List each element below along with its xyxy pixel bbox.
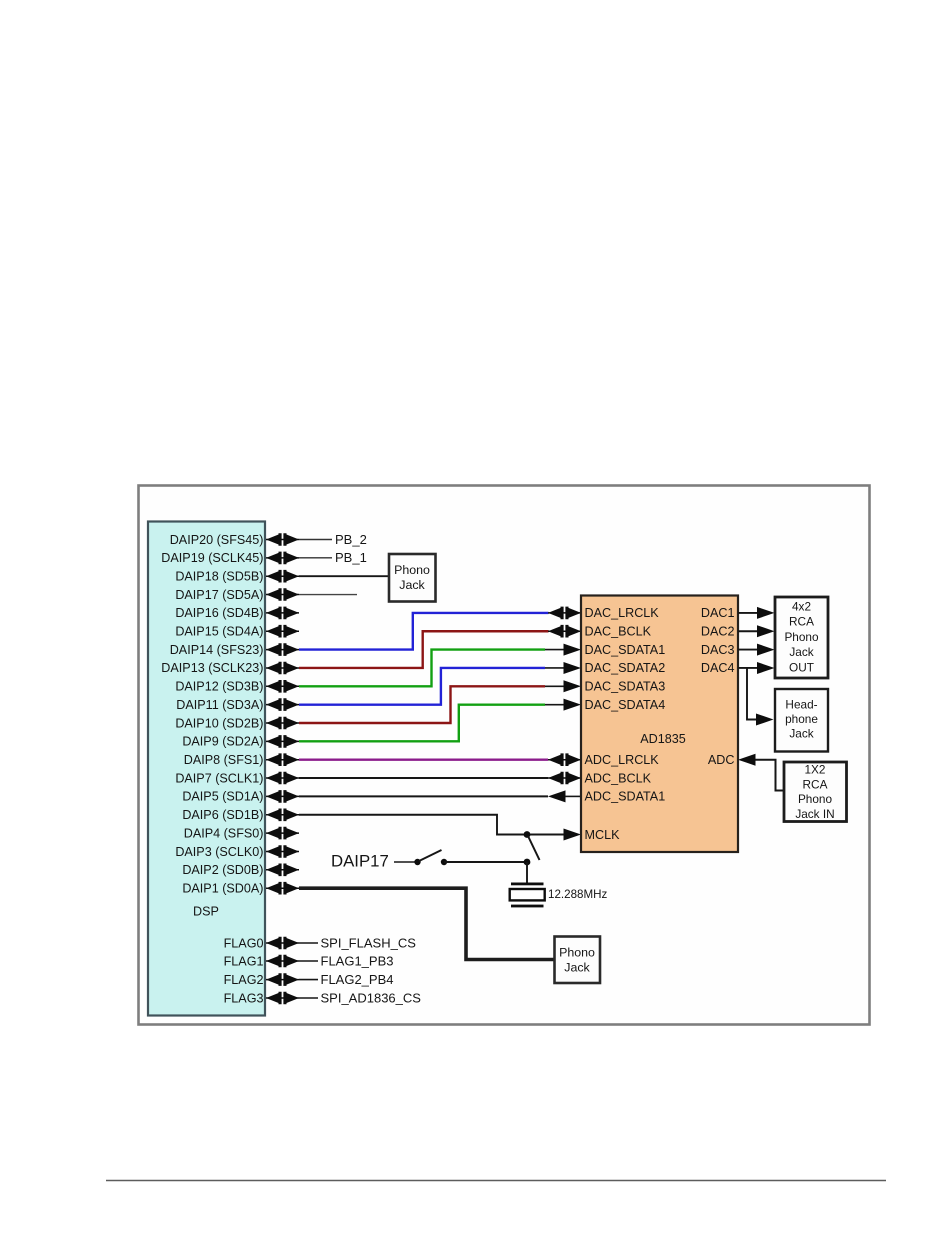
RCA phono in jack box bbox=[784, 762, 847, 822]
svg-text:DAIP16 (SD4B): DAIP16 (SD4B) bbox=[175, 606, 263, 620]
wire DAIP17 label to switch bbox=[394, 861, 415, 863]
bidirectional pin arrow DAIP20 (SFS45) bbox=[266, 533, 299, 546]
svg-text:DAC4: DAC4 bbox=[701, 661, 735, 675]
svg-text:ADC_LRCLK: ADC_LRCLK bbox=[585, 753, 660, 767]
bidirectional pin arrow FLAG0 bbox=[266, 937, 299, 950]
arrow into DAC_SDATA3 bbox=[564, 680, 582, 692]
svg-text:RCA: RCA bbox=[789, 615, 814, 629]
svg-text:DAIP10 (SD2B): DAIP10 (SD2B) bbox=[175, 716, 263, 730]
svg-text:PB_2: PB_2 bbox=[335, 532, 367, 547]
bidirectional arrow at ADC_LRCLK bbox=[548, 753, 581, 766]
svg-text:DAC_SDATA4: DAC_SDATA4 bbox=[585, 698, 666, 712]
svg-text:1X2: 1X2 bbox=[805, 763, 826, 777]
arrow toward DSP on ADC_SDATA1 bbox=[548, 790, 566, 802]
svg-text:MCLK: MCLK bbox=[585, 828, 621, 842]
bidirectional pin arrow DAIP2 (SD0B) bbox=[266, 864, 299, 877]
svg-text:ADC_SDATA1: ADC_SDATA1 bbox=[585, 790, 666, 804]
svg-text:DAIP17: DAIP17 bbox=[331, 852, 389, 871]
bidirectional pin arrow DAIP12 (SD3B) bbox=[266, 680, 299, 693]
wire DAIP1 to phono jack bbox=[299, 888, 554, 959]
svg-text:DAC_SDATA3: DAC_SDATA3 bbox=[585, 680, 666, 694]
svg-text:DAC1: DAC1 bbox=[701, 606, 735, 620]
arrow into DAC_SDATA2 bbox=[564, 662, 582, 674]
bidirectional pin arrow DAIP8 (SFS1) bbox=[266, 753, 299, 766]
svg-text:12.288MHz: 12.288MHz bbox=[548, 888, 607, 901]
switch contact node left bbox=[414, 859, 420, 865]
bidirectional pin arrow DAIP10 (SD2B) bbox=[266, 717, 299, 730]
wire DAIP5 to ADC_SDATA1 bbox=[299, 795, 548, 797]
svg-text:FLAG0: FLAG0 bbox=[224, 936, 264, 950]
bidirectional pin arrow FLAG1 bbox=[266, 955, 299, 968]
svg-text:DAC2: DAC2 bbox=[701, 625, 735, 639]
svg-text:DAIP12 (SD3B): DAIP12 (SD3B) bbox=[175, 680, 263, 694]
arrow DAC4 into RCA out jack bbox=[757, 662, 775, 674]
svg-text:DAC_SDATA1: DAC_SDATA1 bbox=[585, 643, 666, 657]
bidirectional pin arrow DAIP16 (SD4B) bbox=[266, 607, 299, 620]
wire DAC4 branch to headphone jack bbox=[747, 668, 756, 720]
svg-text:Jack: Jack bbox=[564, 961, 590, 975]
svg-text:DAIP3 (SCLK0): DAIP3 (SCLK0) bbox=[175, 845, 263, 859]
arrow into DAC_SDATA1 bbox=[564, 644, 582, 656]
wire stub into DAC_SDATA1 bbox=[545, 649, 564, 651]
svg-text:Jack: Jack bbox=[789, 645, 813, 659]
svg-text:DAIP2 (SD0B): DAIP2 (SD0B) bbox=[182, 863, 263, 877]
arrow into headphone jack bbox=[756, 714, 774, 726]
phono jack box bottom bbox=[555, 937, 601, 984]
bidirectional pin arrow DAIP17 (SD5A) bbox=[266, 588, 299, 601]
svg-text:DAIP17 (SD5A): DAIP17 (SD5A) bbox=[175, 588, 263, 602]
svg-text:DAC3: DAC3 bbox=[701, 643, 735, 657]
arrow into MCLK bbox=[564, 829, 582, 841]
bidirectional pin arrow DAIP15 (SD4A) bbox=[266, 625, 299, 638]
wire RCA in jack to ADC bbox=[756, 760, 784, 791]
bidirectional pin arrow FLAG2 bbox=[266, 973, 299, 986]
wire DAIP8 to ADC_LRCLK bbox=[299, 759, 548, 761]
bidirectional pin arrow DAIP1 (SD0A) bbox=[266, 882, 299, 895]
wire switch to crystal node bbox=[444, 861, 527, 863]
headphone jack box bbox=[775, 689, 828, 752]
svg-text:DAIP4 (SFS0): DAIP4 (SFS0) bbox=[184, 826, 264, 840]
svg-text:PB_1: PB_1 bbox=[335, 550, 367, 565]
arrow DAC2 into RCA out jack bbox=[757, 625, 775, 637]
wire DAIP17 stub bbox=[299, 594, 357, 596]
wire FLAG stub FLAG2_PB4 bbox=[299, 979, 318, 981]
svg-text:OUT: OUT bbox=[789, 660, 814, 674]
wire node to crystal bbox=[526, 862, 528, 883]
wire PB_1 bbox=[299, 557, 332, 559]
svg-text:DAIP19 (SCLK45): DAIP19 (SCLK45) bbox=[161, 551, 263, 565]
svg-text:4x2: 4x2 bbox=[792, 599, 811, 613]
wire FLAG stub FLAG1_PB3 bbox=[299, 960, 318, 962]
wire DAC1 to RCA out jack bbox=[738, 612, 757, 614]
figure border frame bbox=[139, 486, 870, 1025]
wire DAIP12 to DAC_SDATA1 bbox=[299, 650, 545, 687]
bidirectional arrow at DAC_BCLK bbox=[548, 625, 581, 638]
wire FLAG stub SPI_FLASH_CS bbox=[299, 942, 318, 944]
svg-text:DAIP20 (SFS45): DAIP20 (SFS45) bbox=[170, 533, 264, 547]
svg-text:Phono: Phono bbox=[559, 946, 595, 960]
svg-text:DAIP14 (SFS23): DAIP14 (SFS23) bbox=[170, 643, 264, 657]
bidirectional pin arrow DAIP14 (SFS23) bbox=[266, 643, 299, 656]
wire stub into DAC_SDATA4 bbox=[545, 704, 564, 706]
svg-text:FLAG2: FLAG2 bbox=[224, 973, 264, 987]
svg-text:DAIP18 (SD5B): DAIP18 (SD5B) bbox=[175, 570, 263, 584]
wire DAIP11 to DAC_SDATA2 bbox=[299, 668, 545, 705]
svg-text:FLAG3: FLAG3 bbox=[224, 991, 264, 1005]
svg-text:Phono: Phono bbox=[784, 630, 819, 644]
wire DAIP10 to DAC_SDATA3 bbox=[299, 686, 545, 723]
bidirectional pin arrow DAIP11 (SD3A) bbox=[266, 698, 299, 711]
svg-text:AD1835: AD1835 bbox=[640, 732, 686, 746]
bidirectional pin arrow DAIP19 (SCLK45) bbox=[266, 552, 299, 565]
crystal Y1 bottom plate bbox=[511, 905, 544, 908]
svg-text:DAIP9 (SD2A): DAIP9 (SD2A) bbox=[182, 735, 263, 749]
svg-text:DAIP8 (SFS1): DAIP8 (SFS1) bbox=[184, 753, 264, 767]
wire PB_2 bbox=[299, 539, 332, 541]
footer rule bbox=[106, 1180, 886, 1182]
AD1835 codec block bbox=[581, 596, 738, 853]
bidirectional pin arrow DAIP4 (SFS0) bbox=[266, 827, 299, 840]
switch blade from MCLK node bbox=[528, 836, 540, 860]
bidirectional pin arrow DAIP9 (SD2A) bbox=[266, 735, 299, 748]
wire DAIP13 to DAC_BCLK bbox=[299, 631, 549, 668]
svg-text:RCA: RCA bbox=[803, 777, 828, 791]
crystal Y1 body bbox=[510, 889, 545, 900]
wire DAC4 to RCA out jack bbox=[738, 667, 757, 669]
svg-text:phone: phone bbox=[785, 712, 818, 726]
svg-text:DAC_BCLK: DAC_BCLK bbox=[585, 625, 652, 639]
wire DAIP7 to ADC_BCLK bbox=[299, 777, 548, 779]
svg-text:DAC_LRCLK: DAC_LRCLK bbox=[585, 606, 660, 620]
wire DAIP18 to phono jack bbox=[299, 575, 389, 577]
wire stub into DAC_SDATA2 bbox=[545, 667, 564, 669]
switch contact node right bbox=[441, 859, 447, 865]
bidirectional arrow at ADC_BCLK bbox=[548, 772, 581, 785]
junction node above crystal bbox=[524, 859, 531, 866]
switch blade DAIP17 bbox=[419, 850, 442, 861]
phono jack box top bbox=[389, 554, 436, 602]
svg-text:DAIP11 (SD3A): DAIP11 (SD3A) bbox=[176, 698, 263, 712]
svg-text:SPI_AD1836_CS: SPI_AD1836_CS bbox=[321, 990, 422, 1005]
svg-text:FLAG1: FLAG1 bbox=[224, 954, 264, 968]
bidirectional pin arrow FLAG3 bbox=[266, 992, 299, 1005]
bidirectional pin arrow DAIP7 (SCLK1) bbox=[266, 772, 299, 785]
svg-text:ADC: ADC bbox=[708, 753, 735, 767]
svg-text:DAIP7 (SCLK1): DAIP7 (SCLK1) bbox=[175, 771, 263, 785]
bidirectional pin arrow DAIP3 (SCLK0) bbox=[266, 845, 299, 858]
wire DAC3 to RCA out jack bbox=[738, 649, 757, 651]
wire DAIP14 to DAC_LRCLK bbox=[299, 613, 549, 650]
junction node on MCLK net bbox=[524, 831, 531, 838]
svg-text:FLAG1_PB3: FLAG1_PB3 bbox=[321, 953, 394, 968]
wire stub into DAC_SDATA3 bbox=[545, 685, 564, 687]
bidirectional pin arrow DAIP6 (SD1B) bbox=[266, 809, 299, 822]
DSP block bbox=[148, 522, 265, 1016]
svg-text:DSP: DSP bbox=[193, 905, 219, 919]
RCA phono out jack box bbox=[775, 597, 828, 678]
svg-text:Phono: Phono bbox=[394, 563, 430, 577]
wire DAIP9 to DAC_SDATA4 bbox=[299, 705, 545, 742]
svg-text:ADC_BCLK: ADC_BCLK bbox=[585, 771, 652, 785]
svg-text:DAIP6 (SD1B): DAIP6 (SD1B) bbox=[182, 808, 263, 822]
svg-text:Head-: Head- bbox=[785, 698, 817, 712]
wire stub ADC_SDATA1 to AD1835 bbox=[565, 795, 581, 797]
arrow DAC3 into RCA out jack bbox=[757, 644, 775, 656]
svg-text:DAIP5 (SD1A): DAIP5 (SD1A) bbox=[182, 790, 263, 804]
svg-text:DAIP13 (SCLK23): DAIP13 (SCLK23) bbox=[161, 661, 263, 675]
svg-text:Phono: Phono bbox=[798, 792, 833, 806]
wire DAIP6 to MCLK bbox=[299, 815, 564, 835]
svg-text:DAIP1 (SD0A): DAIP1 (SD0A) bbox=[182, 882, 263, 896]
wire FLAG stub SPI_AD1836_CS bbox=[299, 997, 318, 999]
arrow into DAC_SDATA4 bbox=[564, 699, 582, 711]
arrow into ADC pin bbox=[738, 754, 756, 766]
svg-text:FLAG2_PB4: FLAG2_PB4 bbox=[321, 972, 394, 987]
wire DAC2 to RCA out jack bbox=[738, 630, 757, 632]
bidirectional arrow at DAC_LRCLK bbox=[548, 607, 581, 620]
svg-text:DAC_SDATA2: DAC_SDATA2 bbox=[585, 661, 666, 675]
bidirectional pin arrow DAIP18 (SD5B) bbox=[266, 570, 299, 583]
crystal Y1 top plate bbox=[511, 883, 544, 886]
bidirectional pin arrow DAIP5 (SD1A) bbox=[266, 790, 299, 803]
svg-text:SPI_FLASH_CS: SPI_FLASH_CS bbox=[321, 935, 417, 950]
svg-text:Jack: Jack bbox=[399, 578, 425, 592]
svg-text:DAIP15 (SD4A): DAIP15 (SD4A) bbox=[175, 625, 263, 639]
bidirectional pin arrow DAIP13 (SCLK23) bbox=[266, 662, 299, 675]
svg-text:Jack: Jack bbox=[789, 727, 813, 741]
svg-text:Jack IN: Jack IN bbox=[795, 807, 834, 821]
arrow DAC1 into RCA out jack bbox=[757, 607, 775, 619]
